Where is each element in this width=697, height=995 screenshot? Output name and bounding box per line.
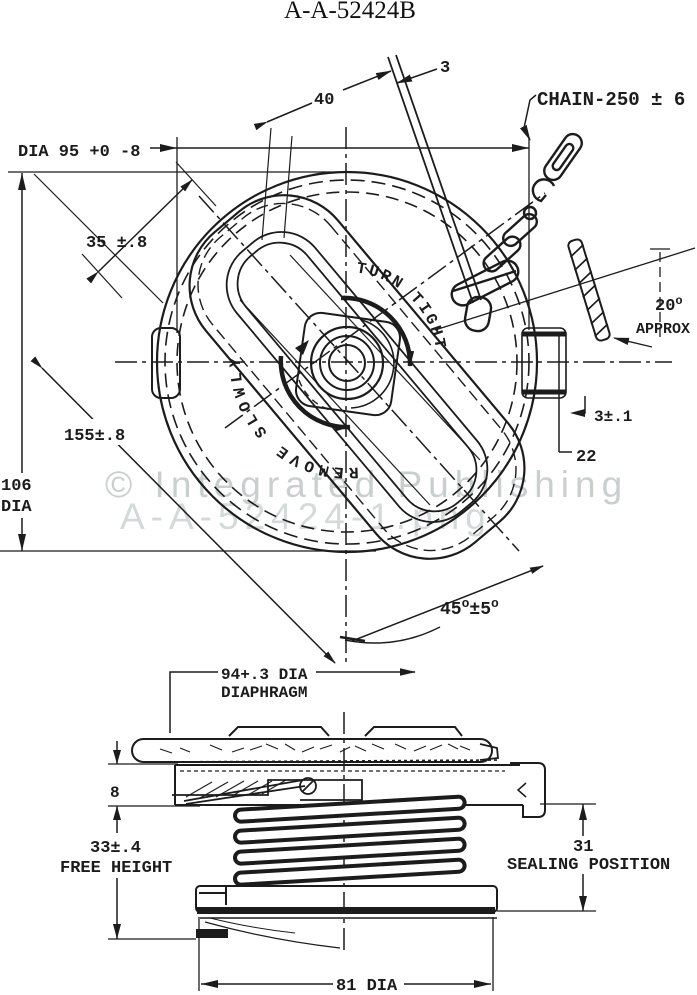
- knob rounded square: [294, 311, 402, 417]
- svg-text:35 ±.8: 35 ±.8: [86, 234, 147, 253]
- lid body: [132, 739, 492, 762]
- handle slot inner line: [223, 228, 491, 526]
- svg-text:106: 106: [1, 477, 32, 496]
- svg-text:3±.1: 3±.1: [594, 408, 632, 426]
- dim 3 +-.1 bracket: [575, 396, 585, 413]
- lid top tabs: [229, 727, 462, 736]
- dim 45 +-5: [352, 566, 543, 641]
- dim 155 +-.8: [62, 420, 144, 444]
- bottom left tab: [196, 929, 228, 938]
- svg-text:22: 22: [576, 448, 596, 467]
- lever hatch wedge: [186, 780, 286, 798]
- handle outer outline: [161, 167, 553, 588]
- chain bracket slot thick marks: [522, 334, 566, 392]
- handle hidden edge dashed: [173, 178, 542, 576]
- bottom plate thick base: [197, 907, 495, 914]
- ear tab 9 o'clock: [152, 328, 180, 398]
- faint lower contour: [205, 922, 340, 948]
- knob ring outer: [311, 327, 383, 399]
- body band: [175, 763, 545, 817]
- inner rim circle dashed: [165, 180, 529, 544]
- REMOVE SLOWLY arrow arc: [281, 356, 350, 427]
- svg-text:45o±5o: 45o±5o: [440, 596, 499, 620]
- center line vertical top view: [345, 127, 347, 662]
- knob ring middle: [320, 336, 374, 390]
- dim 22 bracket: [558, 334, 560, 452]
- lid gasket dotted line: [152, 760, 500, 762]
- svg-text:40: 40: [314, 91, 334, 110]
- rod end eye: [463, 295, 493, 333]
- center line diagonal SW-NE: [225, 193, 545, 428]
- svg-text:94+.3 DIA: 94+.3 DIA: [221, 666, 308, 684]
- chain links: [448, 131, 585, 333]
- thin interior lines of handle: [34, 128, 480, 505]
- svg-text:155±.8: 155±.8: [64, 427, 125, 446]
- svg-text:81 DIA: 81 DIA: [336, 977, 398, 995]
- svg-text:20o: 20o: [655, 294, 683, 316]
- svg-text:A-A-52424B: A-A-52424B: [284, 0, 416, 24]
- knob ring inner: [329, 345, 365, 381]
- 20 deg vertical dashed line: [659, 252, 661, 340]
- 20 deg arrow: [614, 338, 652, 347]
- svg-text:DIA: DIA: [1, 498, 32, 517]
- svg-text:33±.4: 33±.4: [90, 839, 141, 858]
- svg-text:SEALING POSITION: SEALING POSITION: [507, 856, 670, 875]
- svg-text:8: 8: [110, 784, 120, 802]
- lid speckle texture: [160, 744, 470, 753]
- handle slot outer line: [209, 214, 506, 540]
- ear tab 3 o'clock chain bracket: [522, 328, 566, 398]
- knob dashed arc: [299, 380, 330, 410]
- extension line right x=529: [528, 137, 530, 330]
- right cap piece: [510, 763, 545, 817]
- hatched anchor pin: [566, 238, 612, 342]
- dashed rim circle: [177, 192, 517, 532]
- knob partial arc: [351, 320, 394, 408]
- TURN TIGHT arrow arc: [341, 298, 410, 366]
- svg-text:APPROX: APPROX: [636, 321, 690, 338]
- 20 deg reference line: [435, 248, 695, 330]
- link C: [500, 211, 540, 249]
- open hook: [533, 179, 554, 201]
- top twisted link inner: [551, 142, 575, 171]
- clip long link: [448, 257, 522, 309]
- outer circle of cap: [157, 172, 537, 552]
- svg-text:DIAPHRAGM: DIAPHRAGM: [221, 684, 307, 702]
- rod (3mm wire): [388, 55, 481, 303]
- link D: [480, 233, 523, 274]
- svg-text:DIA 95 +0 -8: DIA 95 +0 -8: [18, 143, 140, 162]
- inner dotted lines of band: [180, 770, 505, 772]
- svg-text:FREE HEIGHT: FREE HEIGHT: [60, 859, 172, 878]
- bottom plate: [196, 886, 497, 912]
- svg-text:31: 31: [573, 838, 593, 857]
- center line horizontal: [115, 127, 672, 955]
- small arrow on diagonal centerline: [295, 340, 309, 355]
- center line vertical bottom view: [343, 712, 345, 955]
- center line diagonal NW-SE handle axis: [199, 196, 519, 551]
- 106 bottom extension: [0, 550, 376, 552]
- small link: [524, 207, 536, 219]
- spring coils: [235, 796, 465, 885]
- 106 top extension: [8, 171, 345, 173]
- svg-text:3: 3: [440, 59, 450, 78]
- lever inside band: [172, 778, 362, 804]
- svg-text:CHAIN-250 ± 6: CHAIN-250 ± 6: [537, 89, 685, 111]
- top twisted link outer: [541, 131, 586, 184]
- extension line left x=177: [176, 137, 178, 333]
